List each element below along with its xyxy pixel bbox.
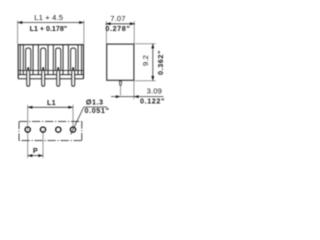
- slot 4: [71, 48, 76, 70]
- extension line left of 7.07: [105, 21, 107, 44]
- svg-text:0.278": 0.278": [105, 24, 130, 33]
- svg-text:0.122": 0.122": [140, 96, 165, 105]
- svg-text:9.2: 9.2: [141, 55, 150, 66]
- svg-text:0.051": 0.051": [85, 106, 110, 115]
- pin axis extension line: [120, 86, 122, 95]
- svg-text:P: P: [33, 146, 38, 155]
- extension line hole4 vertical: [72, 105, 74, 130]
- solder pin 4: [72, 71, 75, 86]
- 9.2 bottom extension line: [135, 80, 156, 82]
- tower 4: [68, 45, 78, 75]
- L1 arrow left: [28, 106, 33, 109]
- solder pin 2: [42, 71, 45, 86]
- svg-text:L1: L1: [47, 98, 56, 107]
- side body rectangle: [107, 44, 134, 80]
- arrow at body edge pointing left: [134, 95, 139, 98]
- slot 2: [41, 48, 46, 70]
- pin stub in slot 1: [27, 67, 29, 71]
- hole 3: [56, 127, 61, 132]
- tower 2: [38, 45, 48, 75]
- base bottom line: [18, 78, 84, 80]
- body right wall outer: [83, 45, 85, 79]
- extension line right of 7.07: [133, 21, 135, 44]
- hole 4: [70, 127, 75, 132]
- side pin (teardrop): [120, 81, 122, 86]
- tower 1: [23, 45, 33, 75]
- connector body top edge: [18, 44, 84, 46]
- shelf line A (slot bottoms): [18, 69, 84, 71]
- body right wall inner: [81, 45, 83, 75]
- arrow right: [79, 21, 84, 24]
- arrow right 7.07: [130, 22, 135, 25]
- pin stub in slot 2: [42, 67, 44, 71]
- P arrow right: [38, 154, 43, 157]
- arrow left: [18, 21, 23, 24]
- hole 2: [40, 127, 45, 132]
- arrow at pin line pointing right: [116, 95, 121, 98]
- extension line hole2 vertical: [42, 130, 44, 158]
- L1 dimension line: [28, 106, 73, 108]
- solder pin 3: [57, 71, 60, 86]
- P dimension line: [28, 155, 43, 157]
- 3.09 dimension line: [111, 96, 164, 98]
- tower 3: [53, 45, 63, 75]
- arrow down 9.2: [151, 76, 154, 81]
- body right edge extension line down: [133, 81, 135, 99]
- extension line hole1 vertical: [27, 105, 29, 158]
- arrow left 7.07: [106, 22, 111, 25]
- 9.2 top extension line: [135, 43, 156, 45]
- svg-text:3.09: 3.09: [147, 87, 162, 96]
- pin stub in slot 3: [57, 67, 59, 71]
- 9.2 vertical dimension line: [152, 44, 154, 81]
- dimension line L1+4.5: [18, 22, 84, 24]
- svg-text:L1 + 0.178": L1 + 0.178": [30, 25, 67, 33]
- L1 arrow right: [68, 106, 73, 109]
- base top line B: [18, 74, 84, 76]
- leader diagonal to hole 4: [71, 107, 84, 134]
- svg-text:0.362": 0.362": [156, 50, 165, 75]
- solder pin 1: [27, 71, 30, 86]
- footprint outline dash-dot rectangle: [19, 121, 82, 140]
- arrow up 9.2: [151, 44, 154, 49]
- body left wall inner: [19, 45, 21, 75]
- body left wall outer: [17, 45, 19, 79]
- slot 1: [26, 48, 31, 70]
- svg-text:7.07: 7.07: [110, 14, 125, 23]
- dimension line 7.07: [106, 23, 135, 25]
- P arrow left: [28, 154, 33, 157]
- svg-text:L1 + 4.5: L1 + 4.5: [34, 13, 63, 22]
- slot 3: [56, 48, 61, 70]
- extension line left of L1+4.5: [17, 21, 19, 45]
- pin stub in slot 4: [72, 67, 74, 71]
- leader shoulder line: [84, 106, 107, 108]
- extension line right of L1+4.5: [83, 21, 85, 45]
- hole 1: [25, 127, 30, 132]
